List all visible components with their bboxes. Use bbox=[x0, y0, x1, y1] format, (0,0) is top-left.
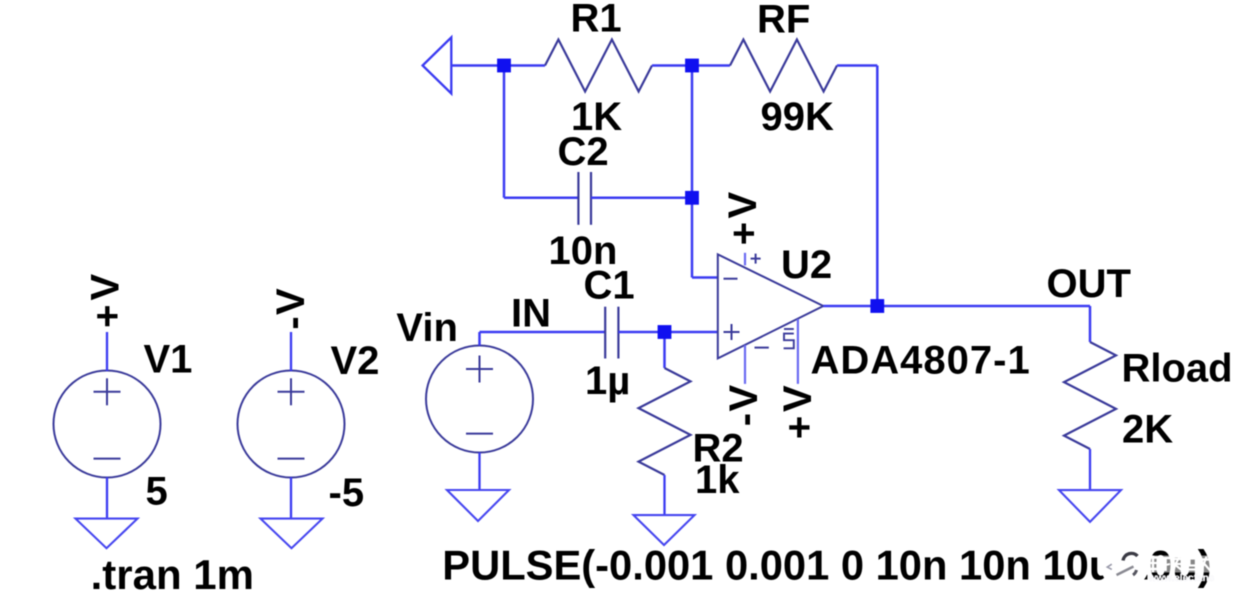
wire to C2 left plate bbox=[504, 197, 578, 200]
svg-text:V: V bbox=[269, 288, 313, 315]
voltage source V2 bbox=[238, 371, 345, 478]
svg-text:R1: R1 bbox=[571, 0, 622, 41]
net flag V+ above op-amp (rotated) bbox=[721, 192, 766, 246]
char 5 bbox=[1201, 557, 1212, 572]
junction node C bbox=[685, 191, 699, 205]
svg-text:PULSE(-0.001 0.001 0 10n 10n 1: PULSE(-0.001 0.001 0 10n 10n 10u 20u) bbox=[442, 542, 1211, 589]
wire V1 top bbox=[106, 332, 108, 371]
wire R1 to node B bbox=[652, 64, 692, 67]
capacitor C1 bbox=[605, 307, 618, 359]
svg-text:V: V bbox=[776, 385, 820, 412]
voltage source Vin bbox=[426, 346, 533, 453]
net flag V+ below op-amp right (rotated) bbox=[776, 385, 822, 439]
net flag V- below op-amp (rotated) bbox=[722, 384, 767, 426]
resistor RF bbox=[730, 40, 837, 92]
svg-text:1µ: 1µ bbox=[585, 359, 630, 403]
wire node A down bbox=[503, 66, 506, 198]
wire C2 right plate to node C bbox=[591, 197, 692, 200]
op-amp U2 bbox=[718, 254, 824, 359]
wire V1 bottom bbox=[106, 477, 108, 518]
svg-text:2K: 2K bbox=[1122, 408, 1173, 452]
svg-text:Vin: Vin bbox=[396, 306, 458, 350]
svg-text:-: - bbox=[271, 316, 315, 329]
flag arrow left (net flag) bbox=[423, 37, 452, 93]
char 3 bbox=[1173, 556, 1184, 572]
char 2 bbox=[1161, 558, 1171, 571]
svg-text:RF: RF bbox=[757, 0, 810, 42]
wire to op-amp inverting input bbox=[692, 276, 718, 279]
pin 5 marker bbox=[784, 329, 794, 348]
svg-text:-: - bbox=[723, 413, 767, 426]
ground V1 bbox=[76, 519, 138, 549]
ground R2 bbox=[634, 515, 695, 545]
wire C1 to node E bbox=[618, 331, 664, 334]
wire node B to node C bbox=[691, 66, 694, 198]
wire Vin top bbox=[478, 332, 481, 346]
resistor Rload bbox=[1064, 342, 1116, 449]
svg-text:+: + bbox=[85, 305, 129, 328]
svg-text:5: 5 bbox=[146, 469, 168, 513]
wire node E down to R2 bbox=[663, 332, 666, 368]
wire corner down to output node bbox=[876, 66, 879, 307]
svg-text:V1: V1 bbox=[144, 338, 193, 382]
wire corner down to Rload bbox=[1089, 306, 1092, 342]
svg-text:V: V bbox=[721, 192, 765, 219]
watermark elecfans text bbox=[1146, 556, 1215, 585]
wire node B to RF bbox=[692, 64, 730, 67]
svg-text:V: V bbox=[722, 384, 766, 411]
svg-text:+: + bbox=[722, 222, 766, 245]
wire Rload to ground bbox=[1089, 449, 1091, 490]
char 1 bbox=[1148, 556, 1159, 573]
pin stub V+ top bbox=[744, 253, 746, 266]
wire RF to corner bbox=[837, 64, 877, 67]
svg-text:Rload: Rload bbox=[1122, 347, 1233, 391]
wire V2 top bbox=[290, 332, 292, 371]
ground Rload bbox=[1059, 490, 1121, 522]
wire node D to corner bbox=[877, 305, 1090, 308]
svg-text:IN: IN bbox=[511, 291, 551, 335]
wire Vin bottom bbox=[478, 453, 480, 491]
junction node E bbox=[658, 325, 672, 339]
net flag V+ at V1 (rotated) bbox=[84, 274, 130, 328]
junction node D bbox=[870, 299, 884, 313]
ground Vin bbox=[447, 490, 509, 521]
char 4 bbox=[1187, 557, 1199, 572]
voltage source V1 bbox=[54, 371, 161, 478]
wire R2 to ground bbox=[663, 475, 665, 515]
wire IN net bbox=[480, 331, 606, 334]
watermark elecfans logo circle bbox=[1100, 540, 1149, 589]
junction node B bbox=[685, 59, 699, 73]
capacitor C2 bbox=[578, 172, 591, 225]
wire V2 bottom bbox=[290, 477, 292, 518]
resistor R2 bbox=[639, 368, 691, 475]
wire node E to non-inverting input bbox=[665, 331, 718, 334]
svg-text:www.elecfans: www.elecfans bbox=[1148, 573, 1215, 584]
svg-text:1k: 1k bbox=[695, 458, 740, 502]
pin stub V- bottom bbox=[744, 345, 746, 384]
wire node C down to inverting input bbox=[691, 198, 694, 278]
svg-text:-5: -5 bbox=[329, 471, 365, 515]
wire flag to node A bbox=[451, 64, 504, 67]
wire op-amp output to node D bbox=[823, 305, 877, 308]
wire node A to R1 bbox=[504, 64, 545, 67]
svg-text:+: + bbox=[778, 416, 822, 439]
svg-text:ADA4807-1: ADA4807-1 bbox=[811, 339, 1031, 383]
pin stub EN bottom bbox=[797, 319, 799, 384]
svg-text:10n: 10n bbox=[549, 229, 618, 273]
svg-text:OUT: OUT bbox=[1047, 262, 1131, 306]
net flag V- at V2 (rotated) bbox=[269, 288, 315, 330]
svg-text:V: V bbox=[84, 274, 128, 301]
svg-text:99K: 99K bbox=[761, 95, 834, 139]
resistor R1 bbox=[545, 40, 652, 92]
svg-text:V2: V2 bbox=[331, 339, 380, 383]
svg-text:1K: 1K bbox=[571, 95, 622, 139]
junction node A bbox=[497, 59, 511, 73]
ground V2 bbox=[261, 519, 323, 549]
svg-text:.tran 1m: .tran 1m bbox=[91, 551, 254, 593]
svg-text:U2: U2 bbox=[781, 243, 832, 287]
